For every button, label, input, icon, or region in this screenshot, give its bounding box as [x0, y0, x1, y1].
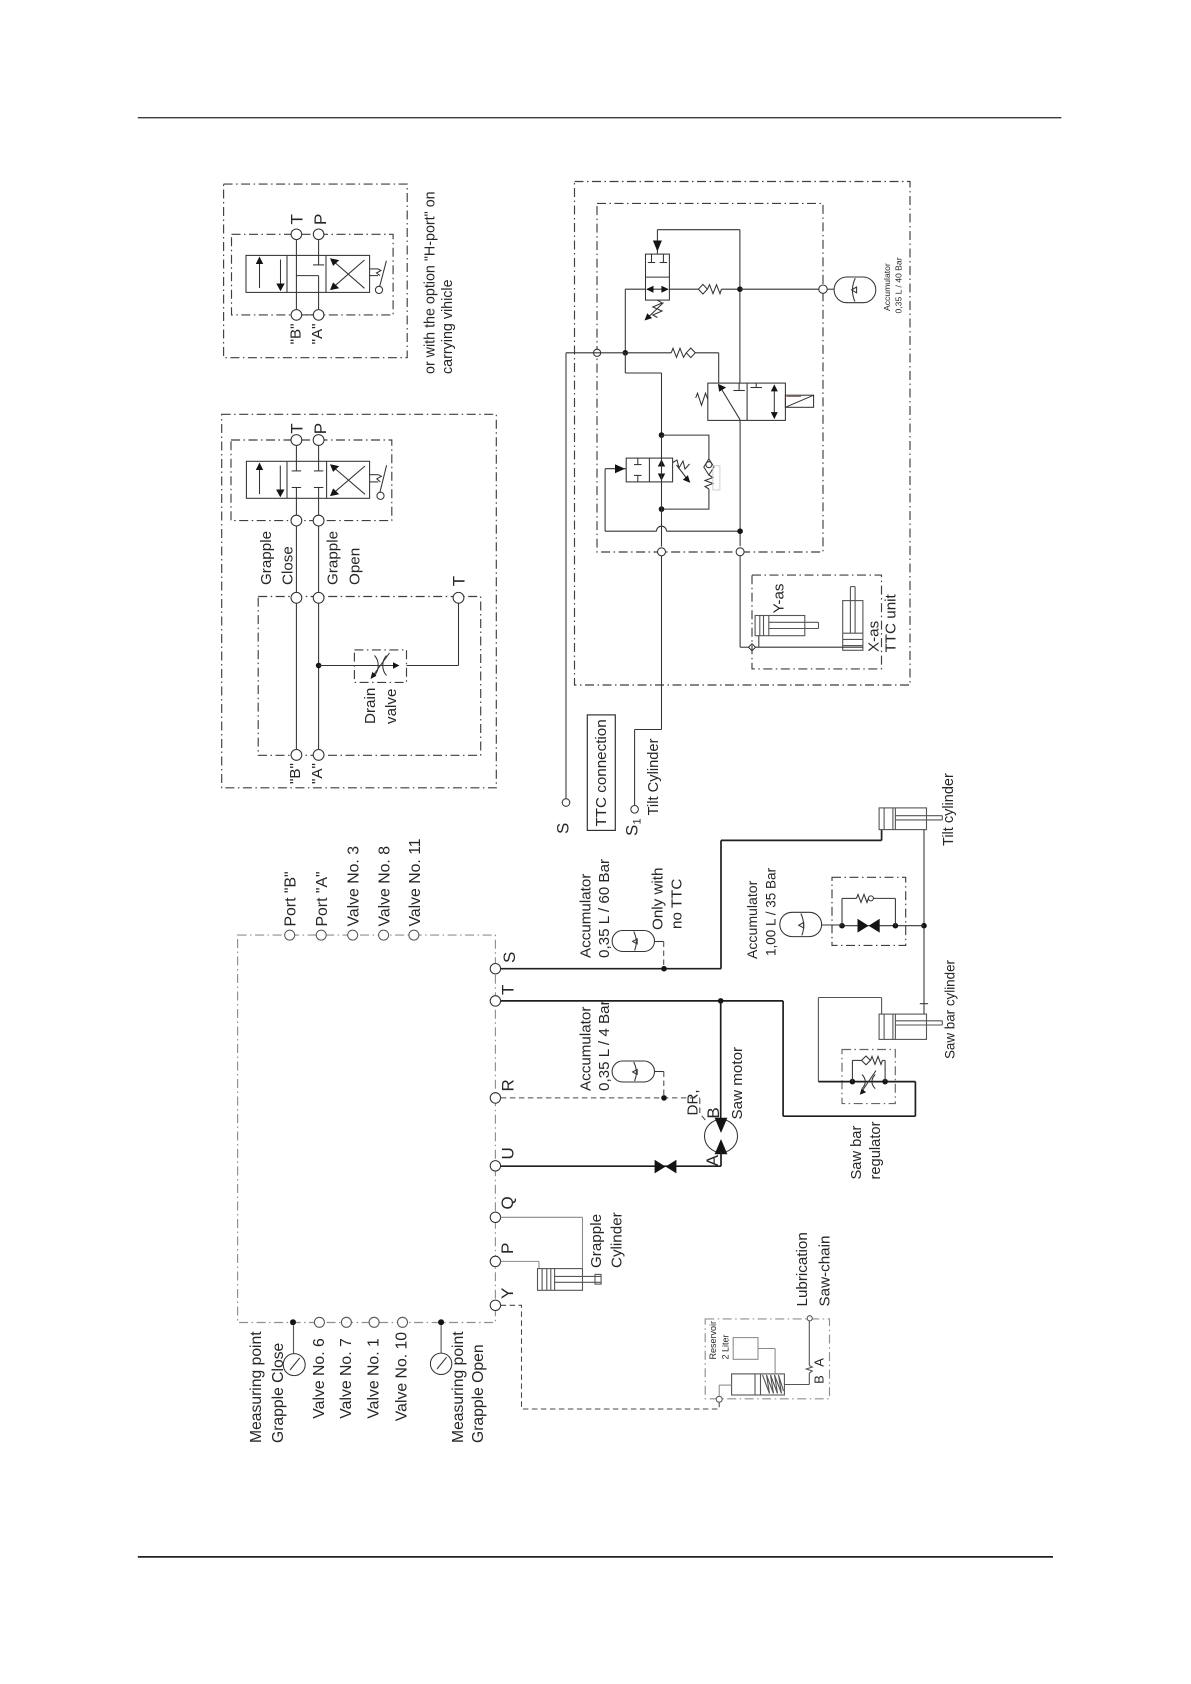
- wire: RV1 left port: [625, 289, 645, 353]
- svg-text:"B": "B": [287, 763, 304, 784]
- node: shutoff right junction: [893, 923, 899, 929]
- valve V3W right cell double arrow: [771, 384, 778, 419]
- valve V3W solenoid: [785, 395, 813, 407]
- accumulator AC60 (0,35 L / 60 Bar): [612, 931, 664, 952]
- svg-text:Valve No. 7: Valve No. 7: [338, 1338, 355, 1419]
- svg-text:Grapple: Grapple: [588, 1214, 605, 1268]
- svg-text:"A": "A": [309, 763, 326, 784]
- port P of grapple valve: [311, 423, 330, 445]
- label Measuring point Grapple Open: [450, 1331, 487, 1443]
- label accumulator AC60: [578, 859, 614, 958]
- svg-text:Grapple Close: Grapple Close: [270, 1342, 287, 1443]
- node: riser junction: [737, 286, 743, 292]
- label X-as: [865, 620, 882, 652]
- svg-text:0,35 L / 4 Bar: 0,35 L / 4 Bar: [596, 1000, 613, 1091]
- valve V3W left cell flow diagonal: [718, 384, 740, 420]
- valve V-G outlet circles: [291, 515, 324, 526]
- port P: [490, 1243, 517, 1267]
- wire: main TTC line through valve VA: [661, 435, 663, 546]
- label Tilt Cylinder: [646, 738, 662, 815]
- inner boundary box of H-port valve: [232, 234, 394, 315]
- node: regulator left port: [850, 1079, 856, 1085]
- port S (TTC connection): [554, 799, 573, 834]
- valve VA pilot line with arrow: [605, 464, 740, 531]
- label Port A: [314, 871, 331, 926]
- label Y-as: [771, 583, 788, 613]
- node: shutoff left junction: [839, 923, 845, 929]
- valve V-G body (4/3 directional valve): [246, 461, 369, 498]
- wire: S supply line: [501, 830, 882, 969]
- valve V-H body (4/3 directional valve): [246, 255, 370, 292]
- boundary box: accumulator shutoff block: [832, 877, 906, 945]
- valve V3W body (3/2 solenoid valve): [708, 383, 786, 420]
- label Only with no TTC: [650, 868, 686, 930]
- svg-text:A: A: [811, 1358, 826, 1367]
- label Grapple Cylinder: [588, 1212, 625, 1268]
- wire: tilt cylinder rod side down line: [920, 830, 928, 1015]
- bypass with check and spring: [842, 894, 895, 925]
- regulator bypass check with spring: [852, 1056, 885, 1082]
- wire: AC60 dashed drop: [663, 942, 665, 967]
- inner boundary box: TTC valve block: [597, 203, 823, 552]
- boundary box: main manifold: [238, 935, 496, 1322]
- svg-text:"A": "A": [309, 323, 326, 344]
- svg-text:Tilt Cylinder: Tilt Cylinder: [646, 738, 662, 815]
- svg-text:T: T: [288, 423, 307, 433]
- valve V-G center cell blocked ports: [292, 446, 324, 516]
- ghost rectangle: [713, 466, 720, 490]
- svg-text:S: S: [500, 952, 519, 963]
- node: bypass top junction: [659, 432, 665, 438]
- svg-text:valve: valve: [383, 689, 400, 724]
- node: S accumulator tap: [661, 966, 667, 972]
- label Saw motor: [729, 1047, 746, 1120]
- svg-text:U: U: [499, 1147, 518, 1159]
- valve V3W blocked stubs: [733, 383, 762, 390]
- port Y: [490, 1288, 517, 1311]
- svg-text:Valve No. 3: Valve No. 3: [346, 846, 363, 927]
- label Valve No. 11: [407, 838, 424, 926]
- node: measuring point grapple close: [290, 1319, 296, 1325]
- svg-text:B: B: [704, 1107, 723, 1118]
- label Valve No. 8: [377, 846, 394, 927]
- valve V-G cell1 parallel arrows: [256, 463, 285, 498]
- label Port B: [283, 871, 300, 926]
- label Valve No. 3: [346, 846, 363, 927]
- svg-text:Accumulator: Accumulator: [744, 880, 760, 959]
- wire: CV2 to valve V3W left port: [718, 353, 720, 383]
- svg-text:Lubrication: Lubrication: [794, 1232, 811, 1306]
- manifold bottom ports: [314, 1317, 407, 1327]
- svg-text:Saw bar cylinder: Saw bar cylinder: [942, 959, 957, 1059]
- label Saw bar regulator: [849, 1121, 884, 1179]
- boundary box: TTC unit: [752, 575, 882, 669]
- wire: regulator through line: [818, 1081, 885, 1083]
- reservoir tank: [733, 1338, 758, 1360]
- node: drain tap junction: [316, 663, 322, 669]
- port S1: [622, 806, 643, 837]
- port T return circle: [450, 576, 469, 603]
- port circle on inner box left edge: [594, 349, 601, 356]
- accumulator AC40 (0,35 L / 40 Bar): [834, 277, 876, 303]
- valve V-G cell3 crossed arrows: [330, 464, 365, 496]
- node: pilot junction: [737, 528, 743, 534]
- relief valve RV1 body: [646, 254, 670, 300]
- wire: inlet to pump: [719, 1385, 731, 1396]
- relief valve RV1 spring and adjust arrow: [645, 300, 664, 320]
- wire: junction to shutoff block: [895, 925, 924, 927]
- relief valve RV1 pilot stem with arrow: [653, 230, 662, 254]
- port B of H-port valve: [288, 310, 305, 345]
- wire: grapple close line: [295, 526, 297, 592]
- svg-text:no TTC: no TTC: [669, 879, 686, 929]
- svg-text:Saw-chain: Saw-chain: [817, 1236, 834, 1307]
- boundary box: lubrication unit: [705, 1319, 829, 1399]
- svg-text:Only with: Only with: [650, 868, 667, 930]
- label box TTC connection: [587, 715, 615, 831]
- label port B quoted: [287, 763, 304, 784]
- relief valve RV1 bottom cell shuttle arrows: [646, 286, 669, 293]
- wire: B line through drain block: [295, 603, 297, 749]
- drain block inlet circles: [291, 592, 324, 603]
- label accumulator AC35: [744, 867, 778, 959]
- valve V-H cell1 parallel arrows: [256, 257, 285, 292]
- svg-text:Valve No. 11: Valve No. 11: [407, 838, 424, 926]
- lubrication pump: [732, 1374, 785, 1395]
- svg-text:Valve No. 10: Valve No. 10: [394, 1332, 411, 1421]
- wire: A line through drain block: [318, 603, 320, 749]
- accumulator AC4 (0,35 L / 4 Bar): [612, 1061, 664, 1082]
- svg-text:P: P: [311, 214, 330, 225]
- svg-text:Y: Y: [498, 1288, 517, 1299]
- inner boundary box of grapple valve: [231, 440, 392, 521]
- svg-text:Accumulator: Accumulator: [578, 874, 595, 958]
- svg-text:Saw bar: Saw bar: [849, 1126, 865, 1180]
- svg-text:DR,: DR,: [685, 1089, 702, 1115]
- node: S branch junction: [623, 350, 629, 356]
- node: bypass bottom junction: [659, 506, 665, 512]
- wire: junction to drain valve: [319, 665, 355, 667]
- label Grapple Close: [258, 531, 296, 585]
- valve V-H lever actuator: [370, 261, 387, 294]
- valve VA 2/2 body: [626, 458, 672, 482]
- svg-text:Q: Q: [498, 1196, 517, 1209]
- grapple cylinder: [538, 1269, 602, 1291]
- shutoff valve on accumulator line: [842, 919, 895, 933]
- gauge: measuring point grapple close: [283, 1325, 305, 1375]
- tilt cylinder: [879, 808, 942, 830]
- wire: Y dashed line to lubrication: [501, 1305, 720, 1409]
- label saw motor ports: [703, 1107, 723, 1166]
- svg-text:Valve No. 1: Valve No. 1: [366, 1338, 383, 1419]
- saw bar cylinder: [879, 1014, 942, 1039]
- boundary box: drain valve sub-block: [258, 597, 481, 756]
- boundary box: TTC option block: [575, 182, 911, 686]
- saw motor M1: [705, 1118, 738, 1154]
- svg-text:Measuring point: Measuring point: [450, 1331, 467, 1443]
- svg-text:1: 1: [632, 818, 644, 824]
- svg-text:Y-as: Y-as: [771, 583, 788, 613]
- wire: S vertical line: [565, 353, 567, 799]
- port T: [490, 985, 517, 1006]
- port circle: lubrication inlet: [716, 1396, 722, 1402]
- svg-text:Valve No. 6: Valve No. 6: [311, 1338, 328, 1419]
- label Valve No. 1: [366, 1338, 383, 1419]
- svg-text:carrying vihicle: carrying vihicle: [440, 279, 456, 374]
- manifold top ports: [285, 930, 419, 940]
- svg-text:B: B: [811, 1375, 826, 1384]
- svg-text:TTC unit: TTC unit: [883, 593, 900, 652]
- svg-text:Port "B": Port "B": [283, 871, 300, 926]
- port P of H-port valve: [311, 214, 330, 240]
- relief valve RV1 top cell blocked stubs: [648, 254, 667, 262]
- drain valve (adjustable throttle): [354, 650, 406, 683]
- svg-text:X-as: X-as: [865, 620, 882, 652]
- node: accumulator line junction: [921, 923, 927, 929]
- label accumulator AC40: [882, 257, 904, 313]
- svg-text:Measuring point: Measuring point: [248, 1331, 265, 1443]
- svg-text:"B": "B": [288, 323, 305, 344]
- wire: RV1 pilot top line: [657, 229, 740, 231]
- svg-text:T: T: [450, 576, 469, 586]
- svg-text:Reservoir: Reservoir: [708, 1321, 718, 1360]
- svg-text:Open: Open: [347, 548, 364, 585]
- valve VA spring right: [673, 460, 691, 483]
- boundary box: grapple valve block: [222, 414, 497, 788]
- label DR with leader: [685, 1089, 707, 1122]
- svg-text:Cylinder: Cylinder: [608, 1212, 625, 1268]
- wire: Q line to grapple cylinder: [501, 1217, 583, 1268]
- valve VA right cell through-flow arrows: [658, 459, 665, 480]
- wire: TTC right riser: [739, 230, 741, 383]
- port U: [490, 1147, 517, 1171]
- accumulator AC35 (1,00 L / 35 Bar): [780, 912, 842, 936]
- wire: R drain dashed line: [501, 1097, 700, 1099]
- cylinder Y-as: [755, 616, 818, 636]
- svg-text:0,35 L / 40 Bar: 0,35 L / 40 Bar: [894, 257, 904, 313]
- svg-text:S: S: [622, 825, 641, 836]
- label Grapple Open: [325, 531, 364, 585]
- port circle: TTC inner outlet left: [658, 548, 666, 556]
- svg-text:regulator: regulator: [868, 1121, 884, 1179]
- valve V-H cell3 crossed arrows: [330, 258, 365, 290]
- bottom page rule: [138, 1556, 1053, 1558]
- adjustable throttle in regulator: [860, 1071, 876, 1095]
- port S: [490, 952, 519, 974]
- svg-text:Drain: Drain: [362, 688, 379, 724]
- wire: AC4 dashed drop: [663, 1072, 665, 1096]
- label drain valve: [362, 688, 400, 724]
- node: measuring point grapple open: [438, 1319, 444, 1325]
- wire: regulator loop to saw bar cylinder: [818, 998, 881, 1082]
- svg-text:2 Liter: 2 Liter: [721, 1334, 731, 1359]
- note: option text: [422, 191, 456, 374]
- port T of grapple valve: [288, 423, 307, 445]
- port circle: TTC inner outlet right: [736, 548, 744, 556]
- svg-text:T: T: [499, 985, 518, 995]
- svg-text:1,00 L / 35 Bar: 1,00 L / 35 Bar: [764, 867, 779, 956]
- node: R accumulator tap: [661, 1095, 667, 1101]
- port circle: chain oil outlet: [807, 1316, 812, 1321]
- wire: outlet to TTC unit: [740, 556, 863, 647]
- label Tilt cylinder: [941, 773, 957, 846]
- label TTC unit: [883, 593, 900, 652]
- wire: T return line: [501, 1001, 916, 1116]
- wire: S line into TTC block: [566, 352, 625, 354]
- top page rule: [138, 117, 1062, 119]
- svg-text:R: R: [499, 1079, 518, 1091]
- port T of H-port valve: [288, 214, 307, 239]
- port Q: [490, 1196, 517, 1222]
- svg-text:A: A: [703, 1154, 722, 1166]
- svg-text:Grapple: Grapple: [258, 531, 275, 585]
- label Saw bar cylinder: [942, 959, 957, 1059]
- wire: drain valve to T return: [407, 603, 459, 665]
- wire: V3W bottom port to junction: [739, 420, 741, 546]
- drain block outlet circles: [291, 750, 324, 761]
- label Measuring point Grapple Close: [248, 1331, 287, 1443]
- wire: outlet to S1: [635, 556, 662, 806]
- wire: P line to grapple cylinder: [501, 1261, 539, 1268]
- shutoff valve on U line: [655, 1160, 677, 1174]
- label Reservoir 2 Liter: [708, 1321, 730, 1360]
- connector diamond at TTC unit edge: [749, 644, 756, 651]
- svg-text:Saw motor: Saw motor: [729, 1047, 746, 1120]
- valve V-G lever actuator: [370, 465, 387, 499]
- boundary box: saw bar regulator: [842, 1050, 895, 1104]
- svg-text:Port "A": Port "A": [314, 871, 331, 926]
- wire: pump outlet with check to port A: [784, 1321, 812, 1385]
- label Valve No. 7: [338, 1338, 355, 1419]
- svg-text:T: T: [288, 214, 307, 224]
- cylinder X-as: [843, 587, 863, 651]
- svg-text:S: S: [554, 823, 573, 834]
- wire: junction down to 2/2 valve branch: [625, 353, 661, 435]
- check valve with spring CV1: [669, 284, 737, 294]
- wire: saw motor B leg: [720, 1001, 722, 1120]
- node: T line saw motor tap: [718, 998, 724, 1004]
- wire: reservoir to pump: [758, 1349, 775, 1374]
- check valve with spring CV2: [625, 348, 718, 358]
- wire: junction to accumulator AC40: [740, 288, 834, 290]
- node: regulator right port: [882, 1079, 888, 1085]
- wire: B-A link: [302, 314, 314, 316]
- svg-text:P: P: [311, 423, 330, 434]
- label port A quoted: [309, 763, 326, 784]
- accumulator AC40 port circle: [819, 285, 827, 293]
- wire: grapple open line: [318, 526, 320, 592]
- label accumulator AC4: [578, 1000, 614, 1091]
- valve V-H center cell H-port connection: [296, 240, 324, 310]
- svg-text:Grapple: Grapple: [325, 531, 342, 585]
- svg-text:Accumulator: Accumulator: [578, 1007, 595, 1091]
- labels B A at pump outlet: [811, 1358, 826, 1384]
- wire: saw motor A leg to U: [501, 1152, 721, 1166]
- svg-text:0,35 L / 60 Bar: 0,35 L / 60 Bar: [596, 859, 613, 958]
- port R: [490, 1079, 517, 1103]
- label Valve No. 6: [311, 1338, 328, 1419]
- gauge: measuring point grapple open: [430, 1325, 451, 1374]
- bypass loop with pilot check CV3: [662, 435, 715, 509]
- svg-text:TTC connection: TTC connection: [593, 719, 610, 826]
- port A of H-port valve: [309, 310, 326, 345]
- svg-text:Grapple Open: Grapple Open: [470, 1344, 487, 1443]
- svg-text:P: P: [498, 1243, 517, 1254]
- svg-text:Tilt cylinder: Tilt cylinder: [941, 773, 957, 846]
- svg-text:or with the option "H-port" on: or with the option "H-port" on: [422, 191, 438, 374]
- boundary box: H-port option block: [224, 184, 408, 358]
- label Valve No. 10: [394, 1332, 411, 1421]
- svg-text:Accumulator: Accumulator: [882, 263, 892, 311]
- svg-text:Close: Close: [280, 546, 297, 585]
- valve V3W spring left: [696, 393, 708, 405]
- label Lubrication Saw-chain: [794, 1232, 834, 1306]
- svg-text:Valve No. 8: Valve No. 8: [377, 846, 394, 927]
- valve VA left cell blocked stubs: [634, 458, 642, 482]
